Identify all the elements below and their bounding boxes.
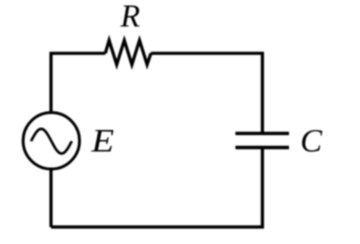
source E sine wave: [31, 129, 72, 154]
wire top-right (resistor to capacitor top): [151, 53, 263, 132]
wire bottom-right (capacitor bottom to bottom-left): [51, 149, 262, 227]
resistor R: [105, 40, 151, 64]
svg-text:E: E: [90, 124, 114, 160]
capacitor C top plate: [235, 132, 289, 135]
wire top-left (source top to resistor): [51, 53, 105, 113]
svg-text:C: C: [300, 123, 323, 159]
source E circle: [23, 113, 79, 169]
svg-text:R: R: [120, 0, 141, 34]
wire bottom-left (up to source bottom): [49, 169, 52, 228]
capacitor C bottom plate: [235, 146, 289, 149]
